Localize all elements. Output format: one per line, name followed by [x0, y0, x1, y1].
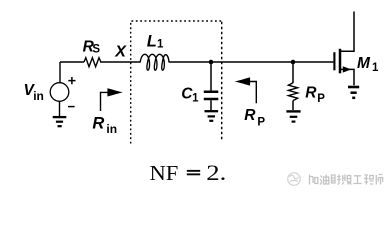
transistor M1 source wire	[341, 69, 354, 85]
svg-text:L: L	[147, 32, 157, 50]
wire RP branch	[292, 62, 294, 83]
svg-text:X: X	[114, 44, 127, 61]
ground under Vin	[53, 117, 67, 126]
svg-text:P: P	[317, 93, 325, 105]
svg-text:P: P	[257, 116, 265, 128]
transistor M1 drain wire	[341, 12, 354, 52]
capacitor C1 plates	[204, 92, 219, 99]
wire C1 branch	[210, 62, 212, 91]
wire Vin riser	[59, 62, 61, 83]
source arrow	[343, 66, 351, 72]
resistor RP	[288, 83, 297, 101]
wire C1 to ground	[210, 100, 212, 110]
char 师	[376, 175, 382, 185]
char 频	[342, 175, 351, 185]
svg-text:M: M	[357, 55, 371, 72]
voltage source Vin	[50, 83, 69, 102]
node dot at RP	[291, 60, 296, 65]
dotted matching-network box	[131, 21, 222, 144]
ground under M1 source	[348, 87, 359, 98]
ground under RP	[286, 111, 300, 121]
wire RP to ground	[292, 101, 294, 110]
plus sign	[68, 77, 75, 84]
node dot at C1	[209, 60, 214, 65]
char 油	[320, 175, 329, 185]
inductor L1	[140, 54, 169, 70]
char 射	[332, 175, 341, 185]
transistor M1 channel bar	[339, 49, 342, 74]
svg-text:in: in	[33, 89, 44, 103]
svg-text:2.: 2.	[206, 161, 226, 185]
svg-text:1: 1	[372, 62, 379, 74]
svg-text:in: in	[106, 122, 117, 136]
wire Vin to ground	[59, 101, 61, 116]
arrow RP (looking left)	[249, 82, 257, 104]
arrow Rin	[101, 92, 111, 111]
svg-text:1: 1	[192, 92, 199, 104]
svg-text:1: 1	[157, 39, 164, 51]
transistor M1 gate bar	[333, 52, 335, 70]
minus sign	[68, 106, 75, 108]
char 工	[353, 176, 361, 184]
wire main horizontal	[60, 61, 333, 63]
watermark text 加油射频工程师 (approximated strokes)	[310, 175, 383, 185]
svg-text:S: S	[92, 43, 100, 55]
svg-text:NF: NF	[150, 160, 179, 184]
svg-text:R: R	[92, 115, 104, 133]
resistor RS	[84, 58, 101, 67]
svg-text:R: R	[305, 84, 317, 101]
char 程	[364, 175, 374, 185]
svg-text:R: R	[244, 107, 256, 124]
watermark logo	[288, 173, 301, 186]
char 加	[310, 175, 318, 185]
ground under C1	[205, 111, 219, 121]
